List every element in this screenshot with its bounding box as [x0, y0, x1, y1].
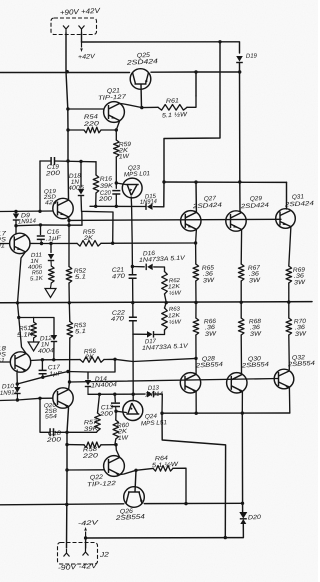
- junction -42V arrow: [84, 536, 87, 539]
- wire +90V rail from J1 to Q19 collector: [66, 33, 69, 199]
- junction C16 / Q17 wire: [40, 242, 43, 245]
- svg-text:424: 424: [45, 200, 57, 207]
- label R63 12K 1/2W: [168, 306, 182, 326]
- zener D16 1N4733A 5.1V: [146, 264, 153, 271]
- wire Q19 collector tie to rail: [68, 199, 70, 200]
- junction -42V wire / x225 branch: [224, 536, 227, 539]
- wire Q22 collector to junction: [120, 470, 136, 474]
- wire R55 to Q27 emitter node: [101, 242, 196, 244]
- junction R69/R70: [287, 300, 290, 303]
- resistor R52 5.1: [66, 267, 72, 284]
- junction R16 / bias bus: [94, 205, 97, 208]
- wire R66 to Q28 emitter node: [195, 335, 197, 358]
- junction Q30 collector / bus / D20 rail: [241, 411, 244, 414]
- wire Q22 emitter up: [116, 445, 120, 458]
- junction Q27 emitter node: [194, 241, 197, 244]
- wire D11 top lead: [50, 244, 52, 253]
- label Q26 2SB554: [115, 508, 146, 522]
- label Q20 2SB554: [44, 403, 58, 421]
- wire D12 bottom lead: [53, 342, 55, 360]
- wire R50 to ground: [50, 283, 53, 288]
- wire Q27 emitter down: [195, 229, 198, 243]
- svg-text:5.1 ½W: 5.1 ½W: [152, 461, 180, 469]
- svg-text:2K: 2K: [84, 353, 96, 361]
- svg-text:U51: U51: [0, 357, 5, 365]
- svg-text:220: 220: [81, 452, 99, 460]
- label C16 .1uF: [46, 228, 63, 242]
- label R59 2K 1W: [118, 141, 132, 161]
- transistor Q30 2SB554: [227, 373, 247, 393]
- label +90V +42V: [60, 6, 102, 17]
- junction rail / y72 wire: [66, 70, 69, 73]
- wire R68 to Q30 emitter: [240, 335, 242, 373]
- wire bias bus y206: [90, 205, 146, 207]
- wire Q20 base from off-page: [0, 398, 53, 400]
- capacitor C20 200: [112, 191, 120, 194]
- junction rail / R58: [65, 443, 68, 446]
- transistor Q28 2SB554: [180, 373, 200, 393]
- svg-text:5.1 ½W: 5.1 ½W: [162, 111, 189, 119]
- wire C22 bottom lead: [132, 321, 134, 335]
- wire Q17 right side to C16 node: [30, 242, 42, 244]
- transistor Q19 2SD424: [53, 198, 73, 218]
- wire D14 jog from y359 wire: [88, 359, 115, 379]
- label R66 .36 3W: [204, 318, 218, 338]
- resistor R51 5.1K: [31, 322, 37, 338]
- wire Q18 emitter up to output bus: [18, 303, 27, 354]
- wire Q21 emitter down: [116, 121, 119, 130]
- capacitor C19 200: [51, 157, 54, 165]
- svg-text:J2: J2: [98, 552, 109, 560]
- junction Q20 emitter / PNP base bus: [68, 380, 71, 383]
- junction x164 / collector bus: [162, 180, 165, 183]
- junction D19 rail / Q25 emitter wire: [238, 70, 241, 73]
- svg-text:3W: 3W: [203, 277, 216, 285]
- junction R64 leg / y504 wire: [184, 502, 187, 505]
- transistor Q22 TIP-122: [104, 456, 125, 477]
- resistor R57 39K: [95, 413, 101, 431]
- label R65 .36 3W: [202, 264, 216, 284]
- wire Q25 emitter to D19 rail: [151, 71, 240, 73]
- wire Q18 collector stub: [16, 370, 18, 373]
- svg-text:½W: ½W: [169, 318, 182, 326]
- label D14 1N4004: [91, 375, 118, 389]
- label C19 200: [44, 163, 60, 177]
- junction R56 wire / D14 branch: [113, 358, 116, 361]
- label C18 200: [45, 430, 61, 444]
- junction D18 top: [79, 160, 82, 163]
- wire C17 node to R56: [42, 359, 80, 361]
- junction +42V bus / x220 branch: [218, 40, 221, 43]
- capacitor C16 .1uF: [37, 236, 45, 239]
- junction R57 / bus y394: [98, 393, 101, 396]
- wire R54 right lead: [101, 129, 116, 131]
- diode D12 1N4004: [51, 335, 57, 342]
- label R70 .36 3W: [294, 318, 308, 338]
- svg-text:39K: 39K: [84, 425, 99, 433]
- wire C21 top lead: [131, 267, 133, 275]
- junction Q28 collector / bus: [195, 412, 198, 415]
- wire Q17 base from off-page: [0, 243, 10, 245]
- svg-text:1N914: 1N914: [145, 391, 164, 399]
- junction R58 / Q22 emitter / R60: [114, 443, 117, 446]
- wire Q29 collector up: [240, 211, 242, 213]
- wire Q26 base lead up: [135, 470, 136, 491]
- wire R67 to output bus: [240, 281, 242, 302]
- junction Q27 collector / bus: [194, 180, 197, 183]
- diode D10 1N914: [14, 387, 21, 394]
- svg-text:MPS L01: MPS L01: [124, 170, 150, 178]
- wire R57 bottom to C18: [55, 431, 98, 432]
- label D11 1N4006: [28, 252, 43, 271]
- wire R61 left lead: [142, 106, 158, 108]
- label C13 200: [98, 404, 113, 418]
- junction Q25 base / Q21 collector / R61: [140, 106, 143, 109]
- wire D15 right lead: [154, 206, 164, 208]
- wire to D16: [132, 266, 144, 268]
- junction R62/R63: [165, 301, 168, 304]
- transistor Q17 MPSU01: [10, 233, 30, 253]
- label R16 39K: [100, 175, 114, 190]
- wire Q22 base from -90V rail: [67, 469, 104, 471]
- wire C16 top lead: [40, 225, 42, 235]
- label R69 .36 3W: [293, 266, 307, 286]
- label C17 .1uF: [47, 364, 64, 378]
- wire Q31 collector from bus corner: [286, 182, 288, 209]
- transistor Q18 MPSU51: [10, 352, 30, 372]
- junction output bus / Q17-Q18: [16, 301, 19, 304]
- resistor R60 2K 1W: [113, 420, 119, 439]
- wire left off-page feed to Q25 collector: [0, 72, 130, 74]
- wire R51 to ground: [33, 338, 35, 342]
- wire R64 left lead: [136, 468, 153, 470]
- wire to R65: [195, 243, 197, 264]
- wire R16 top lead: [95, 162, 97, 175]
- svg-text:1W: 1W: [118, 434, 130, 442]
- wire bias node y225 to D18 bottom: [16, 212, 82, 226]
- svg-text:5.1K: 5.1K: [17, 331, 34, 339]
- svg-text:3W: 3W: [294, 279, 307, 287]
- resistor R54 220: [84, 127, 101, 133]
- wire Q28 emitter up: [195, 358, 197, 374]
- wire Q18 base from off-page: [0, 361, 10, 363]
- label D20: [248, 514, 262, 522]
- transistor Q32 2SB554: [274, 369, 294, 389]
- junction rail / Q21 base: [66, 107, 69, 110]
- svg-text:-42V: -42V: [78, 519, 99, 527]
- svg-text:5.1: 5.1: [75, 328, 86, 336]
- label R60 2K 1W: [117, 422, 130, 442]
- label R64 5.1 1/2W: [152, 455, 180, 470]
- wire R59 bottom to C20: [115, 157, 117, 188]
- wire Q21 collector to junction: [120, 103, 142, 107]
- wire R61 to vertical: [187, 96, 196, 107]
- svg-text:2SB554: 2SB554: [287, 360, 316, 369]
- resistor R67 .36 3W: [238, 264, 244, 281]
- label C22 470: [111, 309, 126, 323]
- junction Q19 emitter / NPN base bus: [67, 219, 70, 222]
- wire Q17 collector up: [15, 226, 17, 234]
- wire Q17 emitter down to output bus: [18, 252, 26, 303]
- transistor Q27 2SD424: [181, 211, 201, 231]
- connector J1 (+90V +42V input): [51, 18, 97, 35]
- wire Q27 collector up: [195, 182, 197, 212]
- transistor Q26 2SB554 (rail switch): [124, 487, 145, 508]
- transistor Q21 TIP-127: [104, 102, 125, 123]
- svg-text:+42V: +42V: [78, 53, 96, 61]
- wire R64 right leg down to Q26 emitter wire: [173, 468, 186, 503]
- wire R57 top lead: [98, 394, 100, 413]
- label Q22 TIP-122: [87, 474, 117, 489]
- junction R67/R68: [240, 301, 243, 304]
- label Q25 2SD424: [125, 52, 158, 67]
- wire C22 top lead: [132, 303, 134, 318]
- junction Q18 collector / y377 wire: [16, 382, 19, 385]
- diode D19: [236, 56, 243, 63]
- label D9 1N914: [18, 212, 37, 225]
- label C21 470: [112, 266, 126, 280]
- wire collector bus down to D20: [241, 413, 243, 512]
- label R51 5.1K: [17, 325, 34, 339]
- svg-text:4006: 4006: [68, 184, 85, 192]
- wire C19 to R16 top: [55, 160, 97, 163]
- svg-text:1W: 1W: [119, 153, 131, 161]
- label +42V: [78, 53, 96, 61]
- label R68 .36 3W: [249, 318, 263, 338]
- junction D12 / Q18 wire: [52, 358, 55, 361]
- svg-text:39K: 39K: [100, 182, 114, 190]
- wire J2 -42V pin lead: [85, 538, 87, 548]
- svg-text:5.1K: 5.1K: [30, 276, 45, 283]
- wire Q25 base lead down: [140, 85, 143, 108]
- label -90V -42V: [58, 563, 99, 572]
- wire Q26 emitter side to D20 rail: [144, 502, 242, 504]
- wire J1 +42V pin lead: [81, 33, 83, 42]
- resistor R16 39K: [93, 175, 99, 193]
- label Q29 2SD424: [239, 195, 269, 210]
- resistor R63 12K 1/2W: [162, 308, 168, 330]
- capacitor C13 200: [111, 403, 120, 406]
- junction D9 / Q19 base wire: [14, 210, 17, 213]
- svg-text:1N914: 1N914: [140, 198, 158, 206]
- wire R69 to output bus: [288, 283, 290, 302]
- wire R16 bottom lead: [95, 193, 97, 206]
- label D15 1N914: [140, 193, 158, 206]
- capacitor C18 200: [50, 428, 53, 436]
- capacitor C17 .1uF: [39, 370, 47, 373]
- wire C13 bottom lead: [115, 407, 117, 412]
- junction R65/R66: [194, 301, 197, 304]
- transistor Q23 MPSL01 (bias): [122, 178, 142, 198]
- ground (R50): [45, 289, 56, 298]
- label R58 220: [81, 446, 99, 460]
- wire R54 left lead: [68, 129, 84, 131]
- junction R55 wire / D18 branch: [111, 242, 114, 245]
- svg-text:R61: R61: [166, 97, 179, 105]
- wire Q24 emitter chain down to bus y394: [132, 334, 134, 394]
- wire bias bus y394: [88, 393, 145, 395]
- wire R60 top lead: [115, 411, 117, 420]
- wire -42V bottom bus: [86, 537, 226, 539]
- label J2: [98, 552, 109, 560]
- junction C21/C22: [131, 301, 134, 304]
- junction D19 rail / collector bus: [238, 180, 241, 183]
- label R62 12K 1/2W: [168, 278, 182, 297]
- svg-text:3W: 3W: [295, 330, 308, 338]
- resistor R62 12K 1/2W: [162, 272, 168, 295]
- wire C18 to Q20 base wire: [40, 398, 50, 432]
- wire bias node y377 to D14 top: [17, 372, 88, 385]
- transistor Q20 2SB554: [53, 388, 73, 408]
- wire Q18 collector lead down: [16, 373, 18, 387]
- wire C19 left lead: [40, 160, 51, 162]
- label D17 1N4733A 5.1V: [142, 338, 189, 352]
- resistor R65 .36 3W: [193, 264, 199, 281]
- junction R51 loop / Q18 emitter wire: [17, 316, 20, 319]
- junction C18 leg / Q20 base wire: [38, 397, 41, 400]
- wire +42V branch x220 down to collector bus and D15: [164, 42, 220, 207]
- wire Q20 collector tie to rail: [68, 407, 70, 409]
- resistor R59 2K 1W: [114, 140, 120, 157]
- wire D20 to -42V wire: [225, 524, 243, 538]
- label Q24 MPSL51: [141, 413, 167, 428]
- resistor R50 5.1K: [49, 266, 55, 283]
- wire R63 to D17: [155, 330, 165, 335]
- wire D16 to R62: [154, 267, 165, 272]
- wire R52 to output bus: [68, 283, 70, 303]
- junction bus / D13 / -42V branch: [160, 412, 163, 415]
- wire D10 bottom lead: [16, 394, 18, 401]
- wire C21 bottom lead: [132, 278, 134, 302]
- resistor R55 2K: [77, 241, 101, 247]
- label R54 220: [82, 113, 100, 128]
- label R52 5.1: [74, 267, 87, 281]
- capacitor C21 470: [129, 275, 137, 278]
- wire +42V top bus: [82, 42, 240, 53]
- wire D18 bottom jog to R55 node: [81, 196, 113, 244]
- svg-text:220: 220: [82, 120, 100, 128]
- label Q18 MPSU51 (clipped): [0, 345, 7, 365]
- junction R59 leg / Q23 base: [115, 181, 118, 184]
- svg-text:D20: D20: [248, 514, 262, 522]
- wire left off-page to Q26 collector: [0, 504, 124, 505]
- junction C19 leg / Q19 base wire: [38, 210, 41, 213]
- wire PNP collector bus y413: [162, 412, 290, 414]
- resistor R70 .36 3W: [286, 318, 292, 335]
- wire R70 to Q32 emitter: [288, 335, 291, 370]
- svg-text:1N914: 1N914: [18, 218, 37, 226]
- svg-text:3W: 3W: [250, 330, 263, 338]
- wire NPN output base bus: [69, 219, 281, 220]
- junction R54 / Q21 emitter / R59: [115, 128, 118, 131]
- wire D9 bottom lead: [15, 220, 17, 226]
- junction Q28 emitter node: [194, 357, 197, 360]
- label Q27 2SD424: [191, 195, 222, 210]
- label Q23 MPSL01: [124, 164, 150, 178]
- label -42V: [78, 519, 99, 527]
- label R61 5.1 1/2W: [162, 97, 189, 119]
- wire R51 top lead: [33, 318, 35, 323]
- ground (R51): [28, 342, 39, 351]
- junction D10 / Q20 base wire: [16, 398, 19, 401]
- diode D13 1N914: [147, 391, 154, 398]
- wire Q32 collector down to bus: [288, 387, 290, 413]
- label Q30 2SB554: [241, 355, 270, 369]
- diode D9 1N914: [13, 214, 19, 221]
- resistor R64 5.1 1/2W: [153, 466, 173, 472]
- arrow -42V off-page: [84, 527, 87, 538]
- wire Q30 collector down to bus: [241, 391, 243, 413]
- wire C16 bottom lead: [40, 240, 43, 244]
- label Q28 2SB554: [195, 355, 224, 369]
- wire -90V rail from J2 to Q20 collector: [67, 408, 69, 548]
- wire R59 top lead: [115, 130, 117, 140]
- wire output bus to R70: [288, 302, 290, 318]
- junction C13 / Q24 base / R60: [114, 410, 117, 413]
- wire PNP output base bus: [70, 379, 279, 383]
- wire C17 bottom lead: [42, 374, 44, 377]
- label D16 1N4733A 5.1V: [139, 250, 186, 264]
- junction Q24 chain / bus y394: [132, 393, 135, 396]
- label D12 1N4004: [38, 335, 55, 355]
- junction Q17 collector / D9 / y225 wire: [14, 224, 17, 227]
- capacitor C22 470: [129, 317, 137, 320]
- svg-text:3W: 3W: [249, 277, 262, 285]
- svg-text:.1µF: .1µF: [46, 235, 63, 243]
- svg-text:200: 200: [44, 170, 60, 178]
- wire Q24 base lead: [116, 411, 126, 412]
- label D10 1N914: [0, 383, 19, 397]
- wire loop top to D12: [34, 318, 54, 336]
- svg-text:1N914: 1N914: [0, 389, 19, 397]
- wire Q19 base from off-page: [0, 210, 53, 213]
- wire D14 bottom lead: [87, 387, 89, 395]
- label Q19 2SD424: [43, 189, 57, 207]
- wire Q21 base from +90V rail: [68, 108, 104, 110]
- label Q32 2SB554: [287, 354, 316, 368]
- wire Q19 emitter to base bus: [68, 217, 70, 220]
- resistor R66 .36 3W: [193, 318, 199, 335]
- wire D13 to collector bus: [154, 394, 163, 413]
- resistor R53 5.1: [67, 322, 73, 339]
- junction C20 / bias bus: [115, 205, 118, 208]
- svg-text:200: 200: [97, 195, 112, 203]
- label R53 5.1: [74, 322, 87, 336]
- wire Q19 emitter leg down to R52: [68, 220, 70, 266]
- wire Q18 right side to C17 node: [31, 359, 43, 362]
- zener D17 1N4733A 5.1V: [147, 331, 154, 338]
- label R50 5.1K: [30, 270, 45, 283]
- resistor R61 5.1 1/2W: [158, 105, 187, 111]
- svg-text:200: 200: [45, 436, 61, 444]
- label C20 200: [97, 189, 112, 203]
- wire R58 right lead: [101, 444, 116, 446]
- junction y504 / D20 rail: [241, 502, 244, 505]
- svg-text:1N4004: 1N4004: [91, 381, 118, 389]
- wire Q23 base lead: [116, 183, 125, 185]
- svg-text:MPS L51: MPS L51: [141, 419, 167, 427]
- junction rail / R54: [66, 128, 69, 131]
- junction Q25 emitter / R61 branch: [194, 70, 197, 73]
- junction C13 / bus y394: [113, 393, 116, 396]
- wire R60 bottom lead: [114, 439, 117, 445]
- arrow +42V off-page: [80, 42, 83, 52]
- wire D9 top lead: [15, 212, 17, 214]
- svg-text:470: 470: [112, 273, 126, 281]
- label R56 2K: [84, 348, 97, 361]
- svg-text:200: 200: [98, 410, 113, 418]
- wire +42V/D19 rail down to collector bus and Q29 collector: [239, 63, 242, 212]
